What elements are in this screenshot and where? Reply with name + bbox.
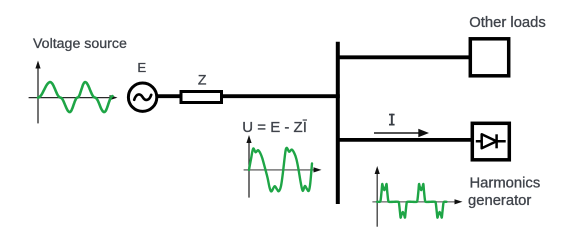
svg-text:Z: Z — [198, 72, 207, 88]
impedance Z (rectangle) — [181, 92, 222, 103]
wave: distorted voltage U — [249, 148, 312, 192]
other loads box — [470, 39, 508, 76]
diode symbol: triangle — [482, 134, 497, 148]
wave: harmonic current pulses — [377, 184, 447, 218]
diode symbol: anode line — [476, 140, 506, 143]
node: current waveform axes — [372, 166, 462, 227]
svg-text:U = E - ZĪ: U = E - ZĪ — [242, 119, 307, 136]
wire: busbar to harmonics generator — [336, 138, 473, 142]
current arrow — [374, 132, 421, 134]
node: source waveform axes — [29, 61, 118, 124]
voltage source E (AC source circle) — [128, 83, 156, 111]
svg-text:generator: generator — [468, 193, 531, 209]
svg-text:E: E — [137, 60, 146, 75]
harmonics generator box — [472, 123, 509, 160]
diode symbol: cathode bar — [495, 134, 498, 148]
label I (current) — [389, 114, 395, 126]
svg-text:Harmonics: Harmonics — [470, 175, 541, 191]
wave: sinusoidal source voltage — [38, 82, 113, 112]
wire: busbar to other loads — [336, 55, 470, 59]
wire: source to Z — [156, 94, 185, 98]
svg-text:Voltage source: Voltage source — [33, 36, 127, 52]
wire: Z to busbar — [218, 94, 340, 98]
tilde inside source — [134, 94, 151, 100]
busbar — [336, 42, 340, 204]
node: voltage U waveform axes — [244, 135, 322, 198]
svg-text:Other loads: Other loads — [469, 15, 546, 31]
